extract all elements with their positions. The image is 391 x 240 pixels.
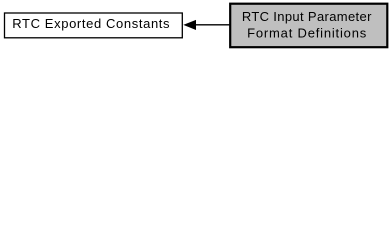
svg-text:RTC Exported Constants: RTC Exported Constants xyxy=(12,16,170,31)
node box: RTC Exported Constants xyxy=(5,13,183,38)
arrowhead pointing at left node xyxy=(183,20,196,30)
node box: RTC Input Parameter Format Definitions (current, grey) xyxy=(230,4,387,48)
wire: dependency edge line xyxy=(196,24,230,26)
svg-text:RTC Input Parameter: RTC Input Parameter xyxy=(242,9,372,24)
svg-text:Format Definitions: Format Definitions xyxy=(247,25,367,40)
